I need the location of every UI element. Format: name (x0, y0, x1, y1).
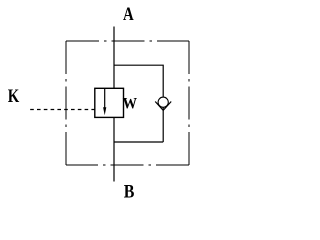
check valve V1 seat (155, 102, 171, 111)
svg-text:W: W (123, 96, 137, 113)
svg-text:A: A (123, 3, 134, 24)
svg-text:K: K (8, 85, 20, 106)
check valve V1 ball (158, 97, 168, 107)
subplate enclosure left edge (dash-dot) (65, 41, 67, 165)
pilot line K (dashed) (30, 109, 95, 111)
svg-text:B: B (124, 180, 135, 200)
subplate enclosure top edge (dash-dot) (66, 40, 189, 42)
subplate enclosure right edge (dash-dot) (188, 41, 190, 165)
subplate enclosure bottom edge (dash-dot) (66, 164, 189, 166)
wire bottom branch to main line (114, 141, 163, 143)
wire valve body to B (113, 117, 115, 181)
wire A to valve body (113, 27, 115, 89)
wire check valve to bottom branch (162, 108, 164, 143)
flow direction arrow inside valve (104, 88, 106, 109)
wire branch to check valve (114, 65, 163, 96)
throttle valve body (95, 88, 124, 117)
